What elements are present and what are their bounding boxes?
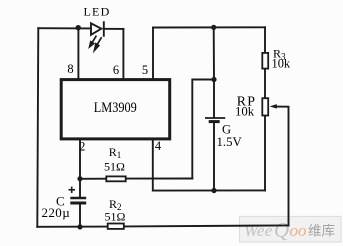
wire: top-right segment (pin5 corner to R3 corner) — [153, 26, 265, 28]
battery G positive plate — [205, 117, 225, 119]
svg-text:8: 8 — [67, 62, 73, 76]
junction dot battery negative on pin4 rail — [211, 188, 216, 193]
capacitor C top plate — [70, 197, 86, 199]
wire: bottom rail left (frame corner to R2 left) — [37, 226, 107, 228]
junction dot at battery top on top wire — [211, 25, 216, 30]
wire: R3 top lead — [264, 27, 266, 53]
svg-text:oo: oo — [290, 221, 307, 240]
wire: R1 left lead (pin2 junction to R1) — [80, 178, 106, 180]
wire: left frame vertical — [37, 28, 38, 227]
svg-text:10k: 10k — [272, 57, 291, 71]
svg-text:5: 5 — [142, 63, 148, 77]
wire: pin 8 drop — [77, 28, 79, 79]
svg-text:220µ: 220µ — [42, 205, 71, 220]
wire: LED cathode to pin6 corner — [104, 28, 124, 30]
svg-text:1.5V: 1.5V — [217, 135, 243, 149]
wire: RP bottom lead — [264, 116, 266, 191]
LED emission arrow 1 — [90, 36, 97, 47]
wire: bottom rail right (R2 right to RP wiper corner) — [124, 225, 289, 226]
wire: R3 to RP — [264, 69, 266, 99]
wire: R1 right lead — [126, 178, 193, 180]
svg-text:Wee: Wee — [244, 221, 273, 240]
capacitor C plus sign — [69, 187, 76, 193]
wire: battery bottom to pin4 rail — [213, 123, 215, 191]
junction dot pin2 / R1 / C — [77, 176, 82, 181]
svg-text:10k: 10k — [235, 105, 255, 119]
wire: pin 6 drop — [122, 29, 124, 79]
wire: branch battery junction to R1 right (down left side) — [192, 80, 214, 179]
potentiometer RP wiper arrow — [270, 104, 277, 109]
watermark WeeQoo — [240, 216, 342, 242]
junction dot battery branch — [211, 77, 216, 82]
svg-text:51Ω: 51Ω — [104, 160, 125, 174]
svg-text:维库: 维库 — [308, 224, 335, 239]
LED diode triangle — [91, 23, 101, 35]
junction dot at LED anode / pin8 — [76, 25, 81, 30]
svg-text:6: 6 — [113, 63, 119, 77]
wire: battery to negative plate — [213, 80, 215, 118]
wire: battery positive drop — [213, 27, 215, 79]
resistor R1 body — [106, 176, 125, 181]
resistor R3 body — [262, 53, 268, 69]
svg-text:2: 2 — [79, 140, 85, 154]
svg-text:R1: R1 — [109, 145, 122, 160]
wire: pin 5 drop — [152, 28, 154, 79]
capacitor C bottom plate — [70, 202, 86, 205]
junction dot C bottom on rail — [77, 224, 82, 229]
wire: capacitor bottom to bottom rail — [79, 204, 81, 227]
battery G negative plate — [209, 120, 220, 123]
svg-text:4: 4 — [155, 139, 162, 153]
wire: top-left segment (left frame corner to LED anode) — [38, 27, 91, 29]
wire: pin 4 drop and horizontal to RP bottom — [153, 140, 265, 191]
svg-text:51Ω: 51Ω — [105, 210, 126, 224]
svg-text:Q: Q — [274, 218, 289, 242]
LED emission arrow 2 — [94, 37, 101, 50]
resistor R2 body — [108, 224, 124, 229]
potentiometer RP body — [262, 98, 268, 115]
svg-text:LM3909: LM3909 — [94, 99, 137, 116]
wire: pin 2 drop to capacitor top — [79, 140, 81, 197]
svg-text:LED: LED — [84, 4, 111, 18]
IC U1 LM3909 box — [61, 80, 170, 139]
wire: RP wiper to bottom rail — [276, 107, 288, 226]
LED cathode bar — [103, 22, 105, 36]
